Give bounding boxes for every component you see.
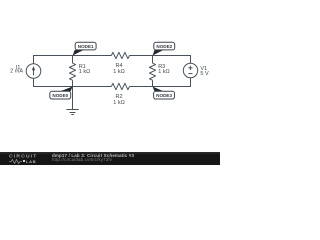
current source I1 circle	[26, 64, 41, 79]
CircuitLab logo text LAB	[26, 159, 36, 164]
node label NODE1 box	[75, 42, 96, 50]
node NODE1 pointer	[73, 50, 84, 56]
svg-text:1 kΩ: 1 kΩ	[113, 69, 124, 75]
resistor R4	[111, 52, 129, 58]
voltage source V1 circle	[183, 63, 197, 77]
svg-text:1 kΩ: 1 kΩ	[113, 100, 124, 106]
wire R3 top lead	[152, 56, 154, 64]
svg-text:5 V: 5 V	[200, 71, 209, 77]
ground bar 1	[66, 109, 78, 111]
node NODE0 pointer	[60, 87, 72, 92]
svg-text:NODE3: NODE3	[156, 93, 172, 98]
node NODE3 pointer	[153, 87, 164, 92]
svg-text:1 kΩ: 1 kΩ	[79, 69, 90, 75]
CircuitLab logo text CIRCUIT	[9, 154, 37, 160]
svg-text:1 kΩ: 1 kΩ	[158, 69, 169, 75]
footer title text	[52, 153, 134, 158]
wire top rail left segment	[34, 56, 112, 64]
node label NODE3 box	[154, 91, 175, 99]
resistor R3	[149, 63, 155, 80]
wire bottom rail left segment	[34, 78, 112, 86]
voltage source V1 plus sign	[188, 66, 192, 70]
wire R1 top lead	[72, 56, 74, 64]
resistor R2	[111, 83, 129, 89]
wire bottom rail right segment	[130, 78, 191, 87]
svg-text:NODE0: NODE0	[52, 93, 68, 98]
CircuitLab logo mark square	[23, 160, 25, 163]
footer url text	[52, 157, 112, 162]
ground bar 3	[71, 114, 74, 116]
node NODE2 pointer	[153, 50, 164, 56]
wire R3 bottom lead	[152, 80, 154, 86]
current source I1 arrow shaft	[33, 69, 35, 76]
svg-text:NODE1: NODE1	[78, 44, 94, 49]
svg-text:NODE2: NODE2	[156, 44, 172, 49]
wire top rail right segment	[130, 56, 191, 64]
current source I1 arrowhead	[32, 66, 35, 70]
CircuitLab logo waveform	[9, 159, 27, 164]
node label NODE0 box	[50, 91, 71, 99]
svg-text:2 mA: 2 mA	[10, 69, 23, 75]
footer bar	[0, 152, 220, 165]
ground bar 2	[70, 112, 76, 114]
resistor R1	[69, 63, 75, 80]
node label NODE2 box	[154, 42, 175, 50]
wire R1 bottom lead	[72, 80, 74, 86]
ground stub wire	[72, 87, 74, 110]
voltage source V1 minus sign	[188, 73, 192, 75]
